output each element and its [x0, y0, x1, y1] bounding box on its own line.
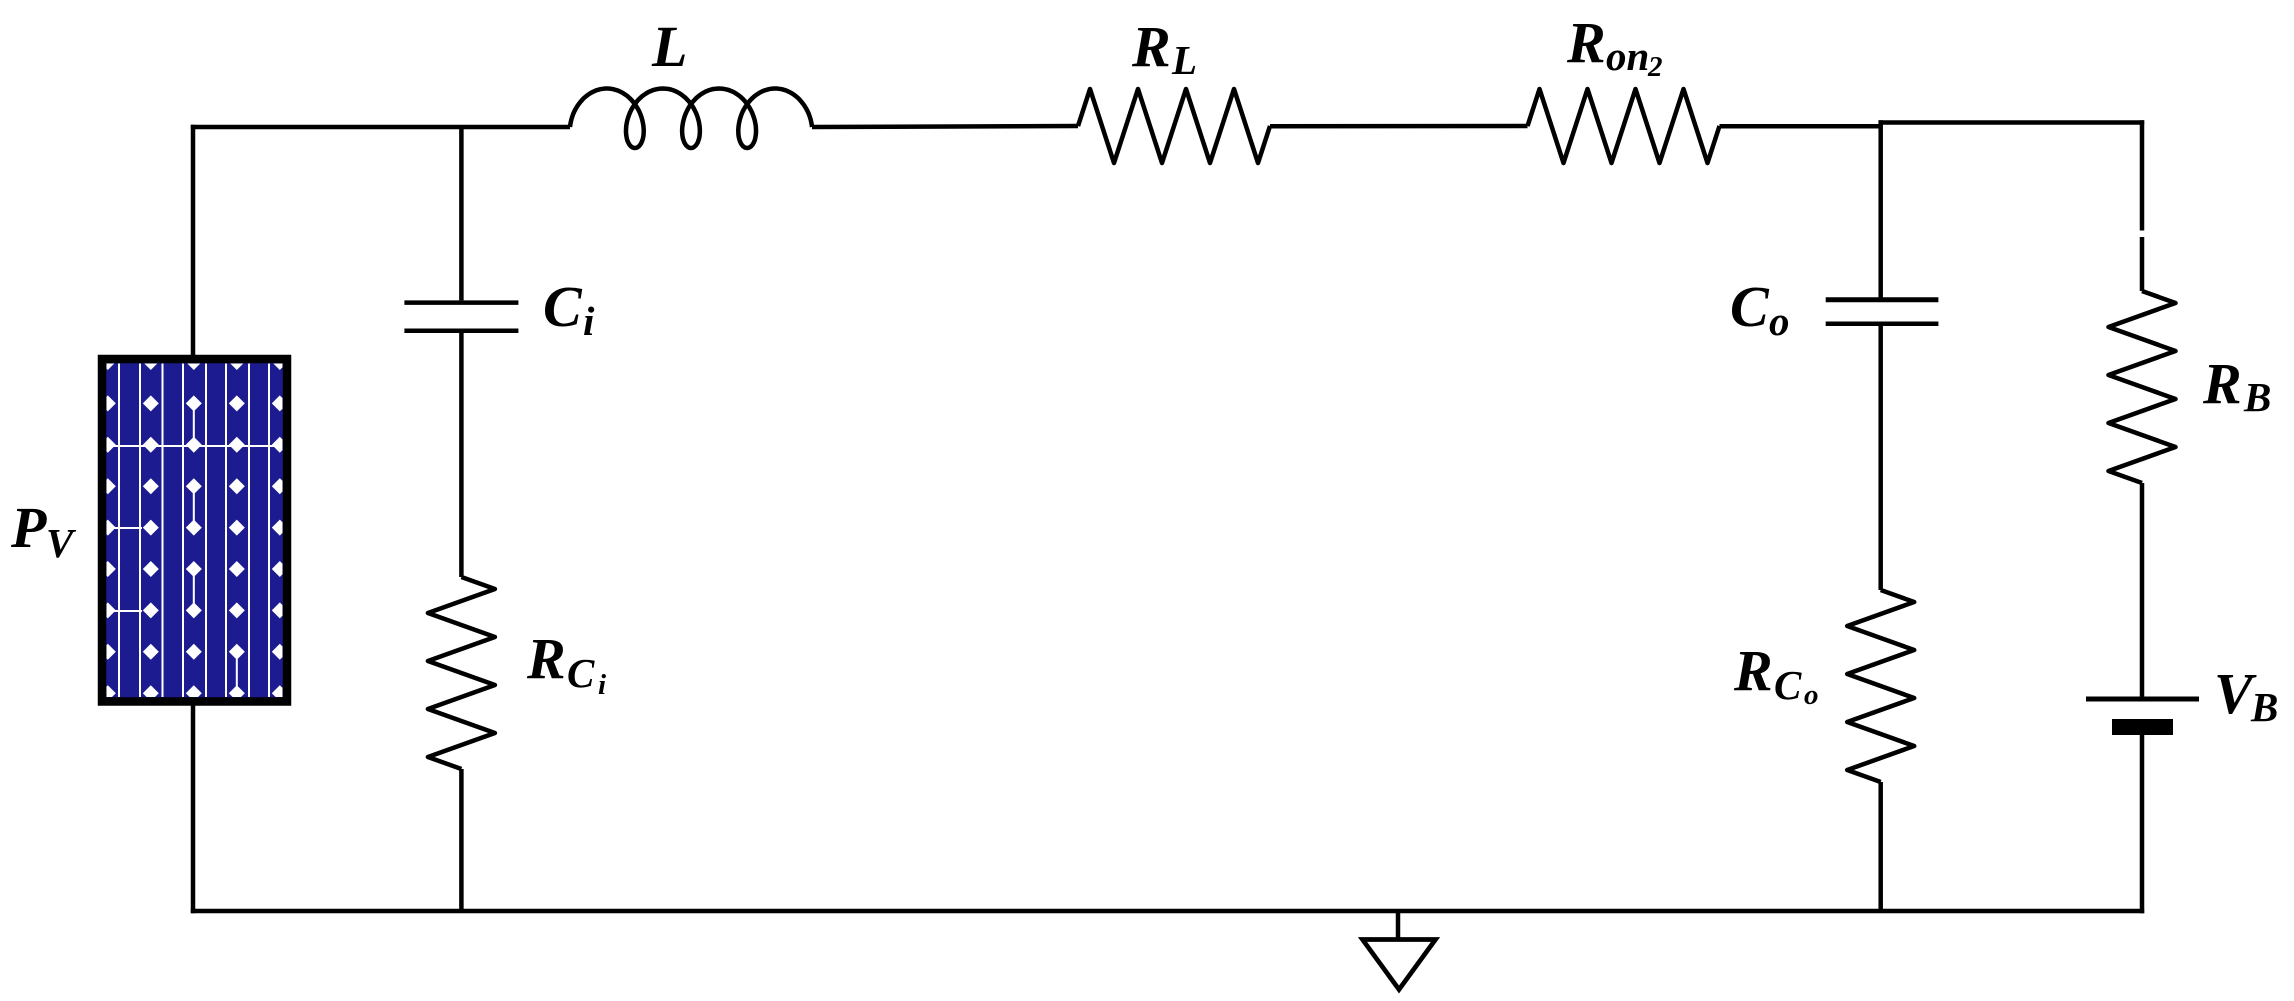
resistor R_Co [1847, 590, 1914, 782]
wire right vertical upper (corner to gap) [2140, 120, 2145, 230]
svg-text:L: L [651, 14, 687, 79]
wire bottom rail [191, 909, 2144, 914]
svg-text:RCo: RCo [1733, 638, 1819, 711]
resistor R_L [1078, 89, 1270, 163]
wire left vertical (PV panel bottom down to bottom rail) [191, 705, 196, 913]
wire right vertical (R_B to battery) [2140, 483, 2145, 697]
wire left vertical (top node down to PV panel top) [191, 125, 196, 356]
svg-text:Ci: Ci [543, 274, 595, 344]
ground stem wire [1396, 911, 1401, 938]
wire right vertical lower (battery to bottom rail) [2140, 735, 2145, 913]
inductor L [570, 89, 812, 149]
svg-text:RB: RB [2202, 351, 2271, 420]
wire C_i branch upper (top rail to capacitor) [459, 127, 464, 300]
ground symbol [1363, 940, 1436, 990]
wire top-left horizontal segment (PV top node to inductor) [191, 125, 570, 130]
resistor R_B [2109, 291, 2176, 483]
wire top between inductor and R_L [812, 126, 1078, 127]
wire C_o branch lower (R_Co to bottom rail) [1878, 782, 1883, 911]
svg-text:RL: RL [1131, 14, 1197, 83]
svg-text:Ron2: Ron2 [1566, 10, 1663, 83]
wire top between R_on2 and C_o node [1720, 124, 1881, 129]
svg-text:PV: PV [10, 495, 77, 566]
wire top between R_L and R_on2 [1270, 124, 1528, 129]
resistor R_on2 [1528, 89, 1720, 163]
capacitor C_i [404, 300, 518, 305]
wire C_i branch middle (capacitor to R_Ci) [459, 333, 464, 577]
wire C_o branch middle (capacitor to R_Co) [1878, 326, 1883, 590]
svg-text:VB: VB [2214, 661, 2278, 730]
wire top between C_o node and top-right corner [1879, 120, 2145, 125]
resistor R_Ci [428, 577, 495, 769]
battery V_B [2086, 697, 2199, 702]
capacitor C_o [1826, 297, 1939, 302]
wire C_i branch lower (R_Ci to bottom rail) [459, 769, 464, 911]
solar panel PV [100, 354, 288, 702]
wire right vertical below gap (to R_B) [2140, 237, 2145, 291]
svg-text:RCi: RCi [526, 626, 606, 701]
wire C_o branch upper (top rail to capacitor) [1878, 120, 1883, 297]
svg-text:Co: Co [1730, 274, 1790, 344]
